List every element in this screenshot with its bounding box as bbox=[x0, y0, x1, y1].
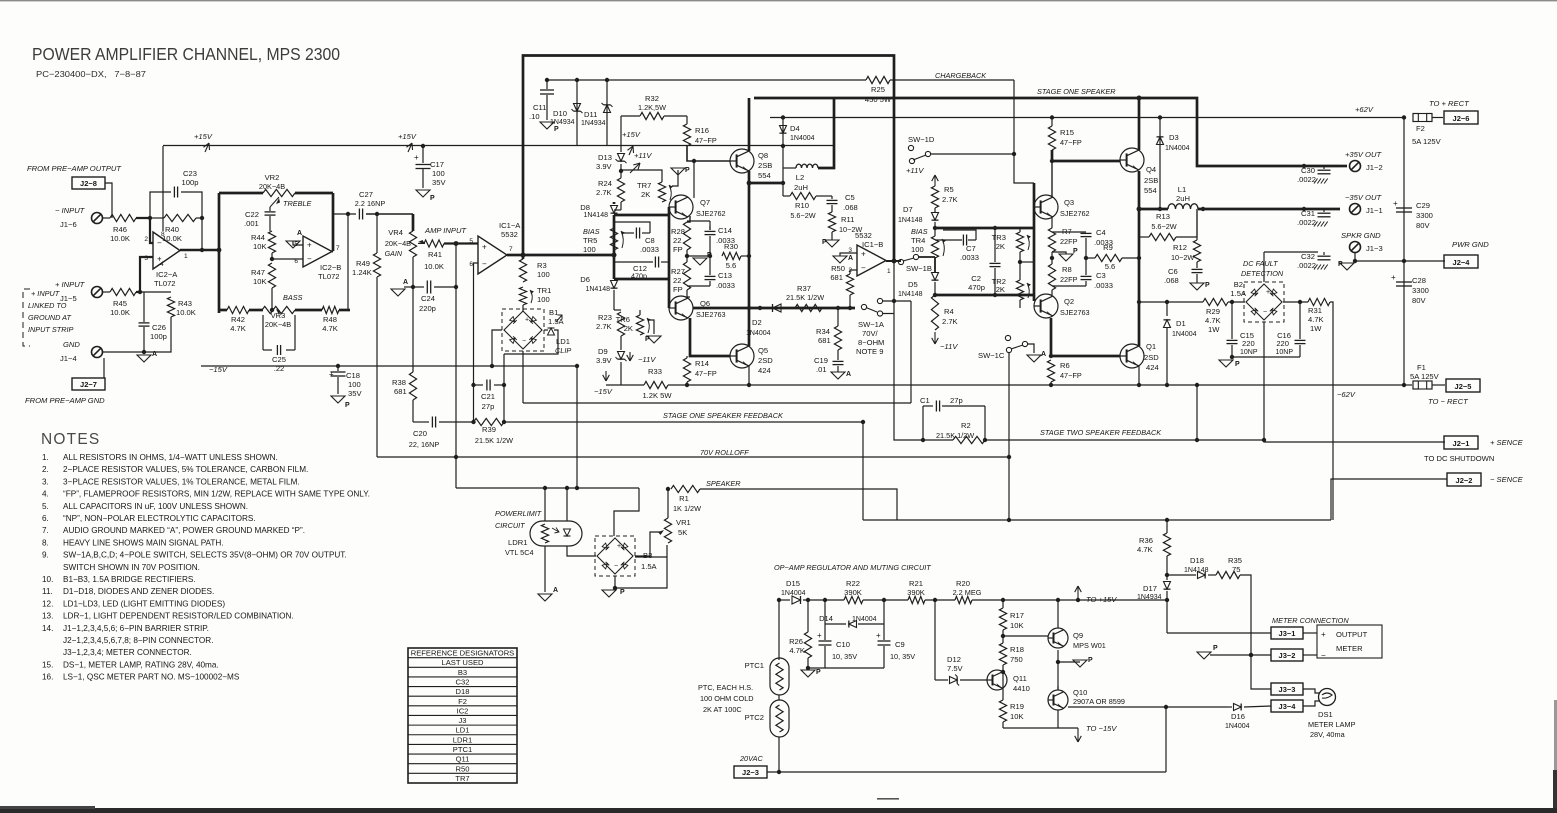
svg-text:J2−1,2,3,4,5,6,7,8; 8−PIN CO: J2−1,2,3,4,5,6,7,8; 8−PIN CONNECTOR. bbox=[63, 636, 213, 645]
svg-text:100p: 100p bbox=[150, 332, 167, 341]
wire tr3 tr2 mid bbox=[1020, 261, 1034, 263]
arrow +11V left bbox=[630, 163, 640, 173]
wire B1 bottom out bbox=[523, 402, 911, 404]
svg-text:2uH: 2uH bbox=[794, 183, 808, 192]
svg-text:− SENCE: − SENCE bbox=[1490, 475, 1524, 484]
wire j3-1 meter bbox=[1303, 632, 1317, 634]
wire VR4 bottom bbox=[412, 257, 414, 287]
svg-text:A: A bbox=[403, 279, 408, 286]
svg-text:IC1−B: IC1−B bbox=[862, 240, 883, 249]
node r15 top bbox=[1050, 115, 1054, 119]
svg-text:2K: 2K bbox=[641, 190, 650, 199]
wire B3 bottom to VR1 bbox=[615, 545, 667, 588]
capacitor C17 bbox=[422, 146, 424, 163]
svg-text:LDR1: LDR1 bbox=[453, 735, 472, 744]
svg-text:A: A bbox=[553, 587, 558, 594]
wire Q10 collector row bbox=[1057, 686, 1059, 690]
svg-text:4.7K: 4.7K bbox=[789, 646, 805, 655]
arrow TO +15V bbox=[1077, 586, 1079, 600]
svg-text:R11: R11 bbox=[841, 215, 854, 224]
svg-text:R5: R5 bbox=[944, 185, 954, 194]
svg-text:C4: C4 bbox=[1096, 228, 1106, 237]
svg-text:5A 125V: 5A 125V bbox=[1410, 372, 1440, 381]
svg-text:R33: R33 bbox=[648, 367, 662, 376]
resistor R11 bbox=[828, 212, 835, 232]
connector J2-2 bbox=[1447, 473, 1481, 486]
resistor R26 bbox=[807, 600, 809, 632]
svg-text:P: P bbox=[1073, 248, 1078, 255]
node j13 bbox=[1353, 259, 1357, 263]
svg-text:D2: D2 bbox=[752, 318, 762, 327]
svg-text:TL072: TL072 bbox=[318, 272, 340, 281]
resistor R16 bbox=[686, 116, 688, 124]
svg-text:TREBLE: TREBLE bbox=[283, 199, 312, 208]
svg-text:.068: .068 bbox=[1164, 276, 1179, 285]
capacitor C10 bbox=[824, 624, 826, 640]
svg-text:D9: D9 bbox=[598, 347, 608, 356]
wire bass bottom heavy bbox=[219, 309, 227, 312]
connector J2-4 bbox=[1444, 255, 1478, 268]
node ic1b out bbox=[892, 259, 897, 264]
svg-text:2uH: 2uH bbox=[1176, 194, 1190, 203]
svg-text:Q3: Q3 bbox=[1064, 198, 1074, 207]
svg-text:VTL 5C4: VTL 5C4 bbox=[505, 548, 534, 557]
wire R27 to Q6 bbox=[687, 290, 690, 297]
resistor R44 bbox=[268, 231, 275, 253]
svg-text:PTC, EACH H.S.: PTC, EACH H.S. bbox=[698, 683, 753, 692]
svg-text:10, 35V: 10, 35V bbox=[832, 652, 857, 661]
node r34 bbox=[836, 306, 840, 310]
svg-text:16.: 16. bbox=[42, 673, 53, 682]
svg-text:681: 681 bbox=[830, 273, 843, 282]
svg-text:80V: 80V bbox=[1412, 296, 1426, 305]
svg-text:10.0K: 10.0K bbox=[110, 234, 130, 243]
wire D5 col bbox=[934, 257, 936, 272]
svg-text:− INPUT: − INPUT bbox=[55, 206, 86, 215]
svg-text:+11V: +11V bbox=[906, 166, 924, 175]
wire LDR bottom audio gnd bbox=[544, 546, 546, 592]
resistor R33 bbox=[644, 381, 668, 388]
svg-text:R50: R50 bbox=[456, 764, 470, 773]
svg-text:LS−1, QSC METER PART NO.: LS−1, QSC METER PART NO. MS−100002−MS bbox=[63, 673, 240, 682]
resistor R34 bbox=[837, 308, 839, 326]
resistor R48 bbox=[322, 306, 339, 313]
wire B1 right bbox=[544, 329, 548, 331]
svg-text:D14: D14 bbox=[819, 614, 833, 623]
wire amp input down leg bbox=[455, 244, 457, 489]
svg-text:22: 22 bbox=[673, 276, 681, 285]
svg-text:J2−3: J2−3 bbox=[742, 768, 759, 777]
svg-text:P: P bbox=[1338, 261, 1343, 268]
svg-text:−: − bbox=[307, 254, 312, 263]
svg-text:4.7K: 4.7K bbox=[230, 324, 246, 333]
wire R17 R18 node to Q9 bbox=[1002, 630, 1004, 643]
svg-text:27p: 27p bbox=[482, 402, 495, 411]
svg-text:METER CONNECTION: METER CONNECTION bbox=[1272, 616, 1349, 625]
svg-text:5: 5 bbox=[469, 238, 473, 245]
wire C23 right bbox=[181, 192, 202, 250]
trimmer TR2 bbox=[1019, 262, 1021, 280]
wire R31 right down bbox=[1330, 302, 1333, 520]
svg-text:R6: R6 bbox=[1060, 361, 1070, 370]
svg-text:SPKR GND: SPKR GND bbox=[1341, 231, 1381, 240]
svg-text:VR2: VR2 bbox=[265, 173, 280, 182]
wire j1-3 down bbox=[1355, 253, 1445, 261]
svg-text:22FP: 22FP bbox=[1060, 275, 1078, 284]
bias column heavy bbox=[613, 215, 616, 279]
wire feedback drop bbox=[862, 422, 864, 520]
svg-text:4.7K: 4.7K bbox=[322, 324, 338, 333]
svg-text:J2−6: J2−6 bbox=[1453, 114, 1470, 123]
wire R43 bottom bbox=[144, 317, 171, 352]
svg-text:681: 681 bbox=[394, 387, 407, 396]
svg-text:STAGE ONE SPEAKER: STAGE ONE SPEAKER bbox=[1037, 87, 1116, 96]
wire R18 to Q11 bbox=[1002, 665, 1004, 700]
PTC1 bbox=[778, 600, 780, 660]
svg-text:POWER AMPLIFIER CHANNEL, MP: POWER AMPLIFIER CHANNEL, MPS 2300 bbox=[32, 44, 340, 64]
svg-text:P: P bbox=[685, 167, 690, 174]
svg-text:R18: R18 bbox=[1010, 645, 1024, 654]
svg-text:D16: D16 bbox=[1231, 712, 1245, 721]
svg-text:10K: 10K bbox=[253, 242, 267, 251]
svg-text:R22: R22 bbox=[846, 579, 860, 588]
wire Q5 collector down bbox=[748, 366, 750, 385]
svg-text:+15V: +15V bbox=[194, 132, 213, 141]
terminal J1-3 bbox=[1350, 242, 1361, 253]
svg-text:TL072: TL072 bbox=[154, 279, 176, 288]
wire Q4 collector down heavy bbox=[1138, 171, 1141, 346]
node led top bbox=[565, 486, 569, 490]
resistor R10 bbox=[790, 192, 816, 199]
svg-text:220: 220 bbox=[1242, 339, 1255, 348]
svg-text:20K−4B: 20K−4B bbox=[385, 239, 411, 248]
capacitor C15 bbox=[1231, 302, 1233, 339]
svg-text:1: 1 bbox=[184, 253, 188, 260]
bridge rectifier B1 bbox=[502, 309, 544, 351]
svg-text:2SD: 2SD bbox=[758, 356, 773, 365]
svg-text:LD1−LD3, LED (LIGHT EMITTIN: LD1−LD3, LED (LIGHT EMITTING DIODES) bbox=[63, 599, 225, 608]
terminal J1-5 bbox=[92, 287, 103, 298]
svg-text:R26: R26 bbox=[789, 637, 803, 646]
svg-text:1N4934: 1N4934 bbox=[1137, 594, 1162, 601]
wire +15V rail bbox=[163, 145, 834, 147]
resistor R43 bbox=[167, 297, 174, 317]
switch SW-1C bbox=[1005, 335, 1010, 340]
svg-text:+: + bbox=[307, 241, 312, 250]
node d4 l2 bbox=[781, 181, 785, 185]
svg-text:R31: R31 bbox=[1308, 306, 1322, 315]
svg-text:1W: 1W bbox=[1208, 325, 1220, 334]
svg-text:D7: D7 bbox=[903, 205, 913, 214]
op-amp IC2-B bbox=[303, 236, 332, 267]
svg-text:−15V: −15V bbox=[209, 365, 228, 374]
svg-text:SJE2762: SJE2762 bbox=[1060, 209, 1090, 218]
scan edge top line bbox=[0, 0, 1557, 1]
svg-text:P: P bbox=[645, 336, 650, 343]
svg-text:.001: .001 bbox=[244, 219, 259, 228]
wire B2 bottom to J2-1 bbox=[1264, 357, 1445, 442]
capacitor C12 bbox=[614, 261, 653, 263]
svg-text:1N4148: 1N4148 bbox=[898, 291, 923, 298]
node ic1a out bbox=[521, 253, 526, 258]
svg-text:10K: 10K bbox=[253, 277, 267, 286]
transistor Q11 bbox=[987, 670, 1007, 690]
svg-text:.0022: .0022 bbox=[1297, 218, 1316, 227]
svg-text:R43: R43 bbox=[178, 299, 192, 308]
svg-text:2.: 2. bbox=[42, 465, 49, 474]
resistor R3 bbox=[522, 255, 525, 259]
wire treble top heavy bbox=[219, 192, 263, 195]
node rolloff sw1c bbox=[1007, 455, 1011, 459]
svg-text:1N4004: 1N4004 bbox=[1165, 145, 1190, 152]
svg-text:+: + bbox=[482, 243, 487, 252]
svg-text:C11: C11 bbox=[533, 103, 546, 112]
svg-text:R17: R17 bbox=[1010, 611, 1024, 620]
svg-text:R41: R41 bbox=[428, 250, 442, 259]
svg-text:10.: 10. bbox=[42, 575, 53, 584]
node fb drop bbox=[861, 420, 865, 424]
wire gnd R30 bbox=[687, 255, 711, 257]
svg-text:390K: 390K bbox=[907, 588, 925, 597]
wire Q1 collector down bbox=[1138, 366, 1140, 385]
bridge rectifier B3 bbox=[595, 536, 635, 576]
wire r9 left bbox=[1086, 257, 1095, 259]
wire 20vac up to meter bbox=[1165, 707, 1167, 772]
dashed note + INPUT LINKED TO GROUND AT INPUT STRIP bbox=[23, 289, 30, 346]
node q5e bbox=[747, 306, 751, 310]
diode D4 bbox=[782, 118, 784, 147]
wire tap to L2 bbox=[749, 182, 783, 185]
svg-text:REFERENCE DESIGNATORS: REFERENCE DESIGNATORS bbox=[411, 649, 515, 658]
node d2 bbox=[758, 306, 762, 310]
wire R32 row bbox=[621, 115, 640, 117]
svg-text:B1: B1 bbox=[549, 308, 558, 317]
potentiometer VR3 bbox=[262, 306, 295, 313]
svg-text:100p: 100p bbox=[182, 178, 199, 187]
resistor R19 bbox=[999, 700, 1006, 722]
svg-text:+: + bbox=[1321, 630, 1326, 639]
wire rail drop to powerlimit bbox=[576, 366, 578, 488]
node r26 bbox=[806, 598, 810, 602]
connector J2-6 bbox=[1444, 111, 1478, 124]
wire j3-3 lamp bbox=[1303, 689, 1320, 693]
node q4 base bbox=[1050, 159, 1054, 163]
wire IC2-A up to +15 rail bbox=[162, 146, 164, 231]
diode D5 bbox=[932, 273, 939, 281]
svg-text:P: P bbox=[816, 669, 821, 676]
wire R16 to Q8 base bbox=[687, 146, 730, 161]
wire J1-4 bbox=[103, 351, 144, 353]
svg-text:1K 1/2W: 1K 1/2W bbox=[673, 504, 701, 513]
svg-text:TO − RECT: TO − RECT bbox=[1428, 397, 1469, 406]
op-amp IC2-A bbox=[153, 232, 180, 269]
svg-text:PTC1: PTC1 bbox=[745, 661, 764, 670]
transistor Q4 bbox=[1120, 148, 1144, 172]
svg-text:47−FP: 47−FP bbox=[1060, 371, 1082, 380]
inductor L2 bbox=[783, 167, 796, 169]
wire -62V rail bbox=[606, 384, 644, 386]
svg-text:P: P bbox=[620, 589, 625, 596]
node IC2-A out bbox=[200, 248, 204, 252]
svg-text:1.2K 5W: 1.2K 5W bbox=[642, 391, 672, 400]
svg-text:554: 554 bbox=[1144, 186, 1157, 195]
svg-text:15.: 15. bbox=[42, 660, 53, 669]
svg-text:NOTE 9: NOTE 9 bbox=[856, 347, 883, 356]
wire SW-1A lower throw bbox=[883, 313, 894, 315]
svg-text:TO −15V: TO −15V bbox=[1086, 724, 1117, 733]
wire J1-5 to R45 bbox=[103, 291, 110, 293]
svg-text:10, 35V: 10, 35V bbox=[890, 652, 915, 661]
svg-text:C27: C27 bbox=[359, 190, 373, 199]
wire to LDR bbox=[456, 487, 639, 489]
capacitor C8 bbox=[622, 232, 634, 234]
svg-text:35V: 35V bbox=[348, 389, 362, 398]
wire J2-8 to input node bbox=[105, 183, 112, 218]
svg-text:POWERLIMIT: POWERLIMIT bbox=[495, 509, 542, 518]
svg-text:F1: F1 bbox=[1417, 363, 1426, 372]
capacitor C11 bbox=[546, 80, 548, 89]
svg-text:SPEAKER: SPEAKER bbox=[706, 479, 741, 488]
diode D3 bbox=[1159, 118, 1161, 153]
svg-text:47−FP: 47−FP bbox=[1060, 138, 1082, 147]
svg-text:R30: R30 bbox=[724, 242, 738, 251]
svg-text:STAGE TWO SPEAKER FEEDBACK: STAGE TWO SPEAKER FEEDBACK bbox=[1040, 428, 1162, 437]
svg-text:470p: 470p bbox=[968, 283, 985, 292]
svg-text:R20: R20 bbox=[956, 579, 970, 588]
svg-text:OUTPUT: OUTPUT bbox=[1336, 630, 1368, 639]
svg-text:D13: D13 bbox=[598, 153, 612, 162]
diode D1 bbox=[1164, 320, 1171, 328]
node R7 R8 bbox=[1051, 252, 1053, 264]
wire top inner rail bbox=[547, 79, 866, 81]
svg-text:LDR−1, LIGHT DEPENDENT RESI: LDR−1, LIGHT DEPENDENT RESISTOR/LED COMB… bbox=[63, 612, 294, 621]
svg-text:B1−B3, 1.5A BRIDGE RECTIFIE: B1−B3, 1.5A BRIDGE RECTIFIERS. bbox=[63, 575, 196, 584]
svg-text:681: 681 bbox=[818, 336, 831, 345]
wire Q9 collector up bbox=[1057, 600, 1059, 628]
svg-text:1N4148: 1N4148 bbox=[898, 217, 923, 224]
wire Q7 emitter to R28 bbox=[687, 216, 690, 222]
svg-text:35V: 35V bbox=[432, 178, 446, 187]
svg-text:5532: 5532 bbox=[501, 230, 518, 239]
svg-text:A: A bbox=[1041, 351, 1046, 358]
transistor Q9 bbox=[1048, 628, 1068, 648]
node r50 bbox=[848, 306, 852, 310]
wire r9 right bbox=[1122, 257, 1139, 259]
node q8b bbox=[692, 159, 696, 163]
svg-text:100: 100 bbox=[911, 245, 924, 254]
svg-text:+: + bbox=[1393, 199, 1398, 208]
capacitor C18 bbox=[337, 366, 339, 371]
capacitor C32 bbox=[1323, 252, 1325, 255]
resistor R14 bbox=[686, 356, 688, 358]
svg-text:D1: D1 bbox=[1176, 319, 1186, 328]
wire L1 to J1-1 heavy bbox=[1198, 208, 1340, 211]
wire Q8 collector rail heavy bbox=[748, 171, 751, 346]
svg-text:R8: R8 bbox=[1062, 265, 1072, 274]
node d12 top bbox=[933, 598, 937, 602]
resistor R5 bbox=[931, 186, 938, 208]
capacitor C7 bbox=[935, 239, 962, 241]
capacitor C20 bbox=[413, 421, 429, 423]
transistor Q3 bbox=[1034, 195, 1058, 219]
svg-text:100: 100 bbox=[432, 169, 445, 178]
node q1c bbox=[1137, 383, 1141, 387]
switch SW-1A bbox=[861, 304, 866, 309]
svg-text:R35: R35 bbox=[1228, 556, 1242, 565]
svg-text:3.9V: 3.9V bbox=[596, 162, 613, 171]
diode D9 zener bbox=[620, 336, 622, 350]
wire chargeback vertical bbox=[1013, 80, 1015, 155]
node ldr1 top bbox=[543, 486, 547, 490]
transistor Q6 bbox=[669, 296, 693, 320]
resistor R49 bbox=[376, 214, 378, 253]
power ground R26 bbox=[801, 670, 815, 677]
svg-text:3300: 3300 bbox=[1416, 211, 1433, 220]
wire R45 to pin3 bbox=[136, 257, 153, 292]
node r2 1197 bbox=[1195, 438, 1199, 442]
wire Q3 collector down bbox=[1051, 217, 1053, 228]
node sense 1167 bbox=[1165, 518, 1169, 522]
svg-text:BIAS: BIAS bbox=[911, 227, 928, 236]
wire R41 to IC1-A pin5 bbox=[444, 242, 478, 244]
svg-text:OP−AMP REGULATOR AND MUTING: OP−AMP REGULATOR AND MUTING CIRCUIT bbox=[774, 563, 931, 572]
svg-text:“NP”, NON−POLAR ELECTROLYTIC: “NP”, NON−POLAR ELECTROLYTIC CAPACITORS. bbox=[63, 514, 256, 523]
svg-text:10.0K: 10.0K bbox=[162, 234, 182, 243]
svg-text:R28: R28 bbox=[671, 227, 685, 236]
svg-text:R36: R36 bbox=[1139, 536, 1153, 545]
wire Q9 emitter to Q10 bbox=[1057, 650, 1059, 690]
node vr1 top bbox=[666, 487, 670, 491]
svg-text:R10: R10 bbox=[795, 201, 809, 210]
svg-text:A: A bbox=[848, 255, 853, 262]
svg-text:12.: 12. bbox=[42, 599, 53, 608]
svg-text:+: + bbox=[525, 317, 529, 324]
wire IC2-A output bbox=[180, 249, 219, 251]
svg-text:+: + bbox=[1391, 273, 1396, 282]
capacitor C26 bbox=[143, 292, 145, 322]
wire Q8 base to Q7 bbox=[693, 161, 695, 198]
transistor Q5 bbox=[730, 344, 754, 368]
node r14 bbox=[685, 383, 689, 387]
svg-text:−: − bbox=[157, 238, 162, 247]
resistor R30 bbox=[722, 252, 741, 259]
node VR3 R47 bbox=[270, 308, 274, 312]
svg-text:D11: D11 bbox=[584, 110, 597, 119]
svg-text:C24: C24 bbox=[421, 294, 435, 303]
svg-text:DC FAULT: DC FAULT bbox=[1243, 259, 1278, 268]
capacitor C4 bbox=[1052, 231, 1086, 233]
svg-text:+: + bbox=[876, 631, 881, 640]
svg-text:R24: R24 bbox=[598, 179, 612, 188]
svg-text:80V: 80V bbox=[1416, 221, 1430, 230]
svg-text:IC2−A: IC2−A bbox=[156, 270, 178, 279]
wire R29 to B2 bbox=[1228, 301, 1245, 303]
svg-text:DS1: DS1 bbox=[1318, 710, 1333, 719]
wire stage one speaker heavy bbox=[754, 98, 1340, 166]
svg-text:IC2−B: IC2−B bbox=[320, 263, 341, 272]
svg-text:.10: .10 bbox=[529, 112, 540, 121]
svg-text:C8: C8 bbox=[645, 236, 655, 245]
svg-text:J3−1,2,3,4; METER CONNECTOR.: J3−1,2,3,4; METER CONNECTOR. bbox=[63, 648, 192, 657]
svg-text:5K: 5K bbox=[678, 528, 687, 537]
svg-text:11.: 11. bbox=[42, 587, 53, 596]
svg-text:L2: L2 bbox=[796, 173, 804, 182]
svg-text:D12: D12 bbox=[947, 655, 961, 664]
svg-text:C2: C2 bbox=[971, 274, 981, 283]
svg-text:R32: R32 bbox=[645, 94, 659, 103]
svg-text:R40: R40 bbox=[165, 225, 179, 234]
wire LED loop bbox=[566, 488, 568, 521]
